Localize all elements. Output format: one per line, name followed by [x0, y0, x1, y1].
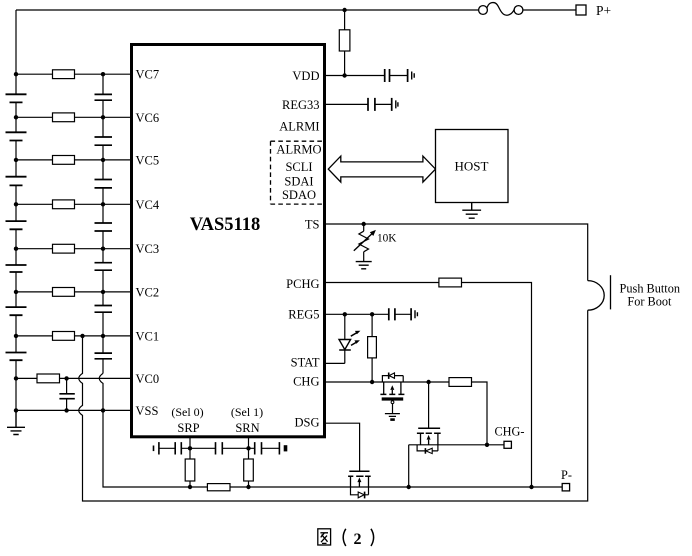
resistor R-VC1 — [53, 332, 75, 341]
dashed I2C port box — [271, 141, 324, 204]
wire rail after fuse — [523, 9, 576, 11]
svg-text:(Sel 1): (Sel 1) — [231, 405, 263, 419]
svg-text:DSG: DSG — [294, 415, 319, 429]
svg-text:HOST: HOST — [455, 158, 489, 173]
capacitor C-REG5-1 — [389, 308, 395, 320]
transistor Q2 CHG- series FET — [417, 382, 441, 454]
terminal CHG- — [504, 441, 511, 448]
transistor Q1 P-FET on CHG with grounded gate — [380, 373, 404, 420]
resistor R-VC5 — [53, 156, 75, 165]
svg-text:VC4: VC4 — [136, 198, 160, 212]
svg-text:SRP: SRP — [177, 421, 199, 435]
resistor R-VC0 — [37, 374, 60, 383]
push button arc — [588, 281, 605, 311]
sense filter capacitor row — [159, 447, 280, 449]
svg-text:VC0: VC0 — [136, 372, 160, 386]
HOST interface double arrow — [328, 156, 435, 182]
capacitor C-VDD1 — [385, 69, 390, 82]
terminal P- — [562, 484, 569, 491]
resistor R-REG5-CHG — [371, 314, 373, 336]
capacitor C-VC3 — [95, 263, 113, 271]
capacitor C-VC0 vertical — [66, 378, 68, 410]
capacitor C-sense-right-end — [278, 442, 280, 454]
battery BT7 — [6, 353, 27, 361]
battery BT1 — [6, 94, 27, 102]
VDD feed resistor R1 — [344, 10, 346, 30]
ground under thermistor — [356, 262, 372, 269]
wire PCHG row and loop to bottom rail — [326, 283, 532, 488]
wire VC1 row — [16, 335, 130, 337]
svg-text:10K: 10K — [377, 232, 397, 244]
svg-text:CHG-: CHG- — [494, 424, 524, 438]
battery stack segments — [15, 74, 17, 410]
svg-text:SDAO: SDAO — [282, 188, 316, 202]
capacitor C-VC1 — [95, 353, 113, 359]
wire CHG- row — [409, 445, 504, 487]
LED light arrows — [351, 332, 358, 336]
svg-text:STAT: STAT — [291, 355, 320, 369]
wire CHG row — [326, 381, 449, 383]
capacitor C-VC7 — [95, 94, 113, 100]
wire TS row to boot riser — [326, 224, 588, 281]
battery BT4 — [6, 221, 27, 229]
wire REG33 row — [326, 103, 392, 105]
svg-text:SCLI: SCLI — [285, 160, 312, 174]
resistor R-CHG-gate — [449, 378, 472, 387]
wire VSS row — [16, 409, 130, 411]
fuse F1 — [479, 3, 523, 16]
capacitor C-VC2 — [95, 306, 113, 313]
battery BT5 — [6, 265, 27, 272]
capacitor C-VDD2 with ground stub — [407, 69, 409, 82]
battery BT2 — [6, 132, 27, 140]
wire boot loop from VC1 with hops, bottom rail and right riser — [79, 310, 588, 501]
wire VDD row — [326, 75, 408, 77]
filter capacitor chain column — [102, 74, 104, 373]
wire VC5 row — [16, 159, 130, 161]
resistor R-VC3 — [53, 244, 75, 253]
resistor R-VC7 — [53, 70, 75, 79]
svg-text:Push Button: Push Button — [620, 281, 680, 295]
svg-text:TS: TS — [305, 217, 320, 231]
svg-text:PCHG: PCHG — [286, 277, 319, 291]
svg-text:(Sel 0): (Sel 0) — [171, 405, 203, 419]
capacitor C-VC5 — [95, 180, 113, 188]
wire DSG row — [326, 423, 360, 471]
capacitor C-REG33-2 with ground stub — [391, 98, 393, 111]
capacitor C-REG33-1 — [368, 98, 375, 111]
svg-text:CHG: CHG — [293, 375, 319, 389]
ground under HOST — [462, 203, 481, 219]
svg-text:P+: P+ — [596, 3, 611, 18]
svg-text:REG33: REG33 — [282, 98, 320, 112]
thermistor arrow — [354, 233, 373, 251]
wire VC7 row — [16, 73, 130, 75]
SRP sense leg with resistor — [189, 437, 191, 459]
battery BT3 — [6, 177, 27, 186]
SRN sense leg with resistor — [248, 437, 250, 459]
svg-text:VC1: VC1 — [136, 329, 160, 343]
svg-text:P-: P- — [561, 468, 572, 482]
svg-text:VC3: VC3 — [136, 242, 160, 256]
ground pack bottom — [7, 410, 25, 434]
wire VC6 row — [16, 116, 130, 118]
resistor R-VC2 — [53, 288, 75, 297]
wire VC4 row — [16, 203, 130, 205]
wire top rail P+ — [16, 9, 479, 11]
thermistor RT1 10K — [363, 224, 365, 231]
capacitor C-sense-left-end — [153, 446, 155, 452]
wire VC3 row — [16, 248, 130, 250]
svg-text:REG5: REG5 — [288, 307, 319, 321]
svg-text:VDD: VDD — [292, 69, 319, 83]
wire left vertical from rail to VC7 — [15, 10, 17, 74]
capacitor C-VC4 — [95, 223, 113, 231]
capacitor C-VC6 — [95, 137, 113, 145]
svg-text:2: 2 — [354, 531, 362, 548]
resistor R-VC4 — [53, 200, 75, 209]
bottom sense rail — [230, 486, 562, 488]
svg-text:VAS5118: VAS5118 — [190, 215, 261, 235]
battery BT6 — [6, 307, 27, 315]
capacitor C-SRP-SRN — [216, 442, 223, 454]
wire REG5 row — [326, 313, 411, 315]
caption figure 2 — [318, 529, 331, 545]
resistor R-VC6 — [53, 113, 75, 122]
HOST block — [436, 130, 509, 203]
svg-text:SRN: SRN — [235, 421, 259, 435]
svg-text:SDAI: SDAI — [284, 174, 313, 188]
wire VC0 row — [16, 377, 130, 379]
wire VC2 row — [16, 291, 130, 293]
capacitor C-SRP-left — [175, 442, 181, 454]
svg-text:VC7: VC7 — [136, 68, 160, 82]
svg-text:ALRMI: ALRMI — [279, 120, 319, 134]
svg-text:For Boot: For Boot — [627, 295, 672, 309]
LED D1 — [344, 314, 346, 339]
wire hop over VC0 then down to sense rail — [99, 373, 207, 487]
svg-text:VC2: VC2 — [136, 285, 160, 299]
IC U1 VAS5118 body — [132, 45, 325, 437]
svg-text:VC6: VC6 — [136, 111, 160, 125]
svg-text:ALRMO: ALRMO — [276, 143, 321, 157]
capacitor C-REG5-2 with ground stub — [410, 308, 412, 320]
terminal P+ — [576, 5, 586, 15]
resistor R-PCHG — [439, 278, 462, 287]
push button actuator bar — [610, 275, 612, 309]
transistor Q3 DSG FET — [348, 471, 371, 498]
svg-text:VSS: VSS — [136, 404, 159, 418]
capacitor C-SRN-right — [255, 442, 262, 454]
svg-text:VC5: VC5 — [136, 153, 160, 167]
resistor R-sense — [207, 484, 230, 491]
